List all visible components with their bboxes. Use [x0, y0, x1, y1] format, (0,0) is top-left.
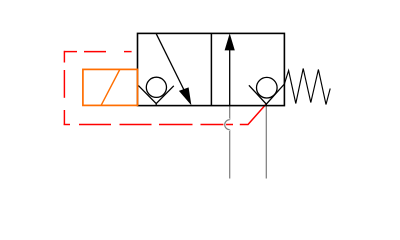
- port line (gray) below right-chamber arrow: [229, 106, 231, 179]
- left poppet ball (circle): [146, 77, 166, 97]
- solenoid slash (orange diagonal): [101, 70, 120, 106]
- crossover jump arc (gray semicircle over pilot line): [225, 120, 230, 130]
- right poppet ball (circle): [257, 77, 278, 98]
- flow-path arrow in left chamber (diagonal, blocked): [156, 34, 191, 106]
- flow-path arrow in right chamber (vertical, open): [225, 33, 235, 105]
- left poppet seat (V with stem): [138, 86, 173, 106]
- solenoid coil box (orange): [83, 69, 138, 105]
- port line (gray) below right poppet seat: [265, 104, 267, 178]
- right poppet seat (V with stem): [249, 84, 285, 106]
- pilot line (red dashed) from solenoid box around to right poppet seat: [64, 51, 267, 125]
- return spring (zigzag) on right side: [284, 69, 330, 105]
- valve body outline (two-position envelope): [138, 33, 285, 105]
- position divider line: [210, 33, 212, 105]
